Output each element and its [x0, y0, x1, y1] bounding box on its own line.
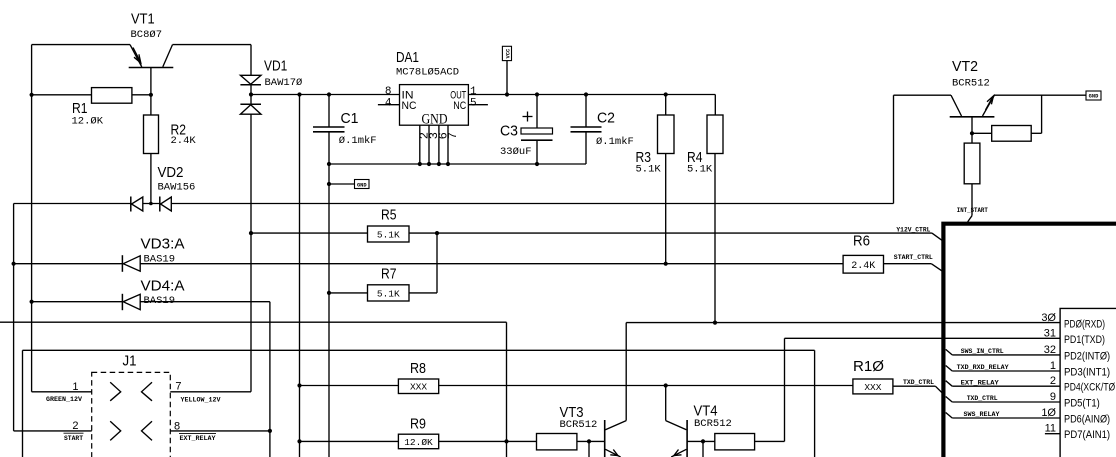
- wire VD3 net left segment: [14, 263, 123, 265]
- resistor R7: [368, 285, 410, 301]
- svg-text:5: 5: [470, 98, 477, 110]
- wire VT1 base down: [150, 68, 152, 95]
- wire VT2 collector feed: [894, 94, 952, 96]
- node VT4 collector riser: [664, 383, 668, 387]
- wire TXD_RXD_RELAY to pin: [952, 370, 1060, 372]
- transistor VT3: [605, 420, 627, 457]
- node R2 bottom junction: [149, 202, 153, 206]
- wire VD3 net to R6 (START_CTRL net): [140, 263, 843, 265]
- ground symbol GND (left): [329, 180, 369, 189]
- bus entry Y12V_CTRL: [932, 233, 942, 240]
- wire vertical x=506.5 down to R9 wire: [506, 322, 508, 457]
- wire VD1 top lead: [250, 45, 252, 76]
- svg-text:32: 32: [1044, 344, 1056, 356]
- pin 4 NC stub: [378, 104, 400, 106]
- pin 7 lead: [447, 125, 449, 164]
- transistor VT2: [950, 95, 995, 117]
- resistor R10: [853, 379, 893, 394]
- bus entry TXD_CTRL: [946, 397, 953, 403]
- svg-text:5.1K: 5.1K: [687, 163, 713, 175]
- svg-text:Y12V_CTRL: Y12V_CTRL: [896, 227, 930, 234]
- diode VD4:A: [122, 294, 140, 310]
- wire R7 right lead: [409, 292, 437, 294]
- wire vertical x=814.6 down offpage: [814, 350, 816, 457]
- svg-text:R1Ø: R1Ø: [853, 358, 884, 375]
- node GND rail / C1 corner: [327, 162, 331, 166]
- svg-text:VD1: VD1: [264, 58, 287, 75]
- node pin3: [427, 162, 431, 166]
- connector J1 dashed outline: [92, 372, 171, 457]
- node R1 left: [30, 93, 34, 97]
- wire PD0 net (R4 bottom to MCU): [626, 322, 1060, 324]
- svg-text:4: 4: [385, 98, 392, 110]
- bus entry TXD_CTRL: [935, 386, 941, 392]
- node x506.5 on R9 wire: [504, 439, 508, 443]
- diode VD1 lower (cathode top): [240, 104, 261, 114]
- node OUT rail / C2: [584, 92, 588, 96]
- node R4 bottom on PD0 net: [713, 321, 717, 325]
- capacitor C2: [571, 95, 602, 165]
- svg-text:1: 1: [470, 86, 477, 98]
- svg-text:VD3:A: VD3:A: [141, 235, 185, 252]
- svg-text:GND: GND: [1089, 94, 1099, 100]
- svg-text:SWS_IN_CTRL: SWS_IN_CTRL: [961, 348, 1004, 355]
- bus entry SWS_IN_CTRL: [946, 349, 953, 355]
- diode VD1 upper (anode top): [240, 75, 261, 85]
- svg-text:J1: J1: [123, 353, 137, 370]
- bus entry START_CTRL: [931, 264, 942, 271]
- wire wireB from x=22.5: [23, 349, 815, 351]
- resistor VT3 internal: [537, 434, 577, 450]
- resistor R5: [368, 226, 410, 242]
- power symbol VCC: [502, 46, 511, 94]
- wire VT2 internal resistor to emitter: [1031, 132, 1041, 134]
- wire TXD_CTRL to pin: [952, 401, 1060, 403]
- svg-text:C1: C1: [341, 110, 359, 127]
- wire GND vertical x=329 (C1 down through sheet): [328, 164, 330, 457]
- wire 12V vertical x=300 (rail down to R8 R9): [299, 95, 301, 457]
- wire 12V rail (VD1 to DA1 IN): [251, 94, 400, 96]
- svg-text:R9: R9: [410, 415, 426, 432]
- node VT4 base junction: [701, 439, 705, 443]
- svg-text:VT4: VT4: [694, 402, 718, 419]
- svg-text:5.1K: 5.1K: [377, 230, 400, 241]
- wire vertical x=269.9 (VD4 down to J1 pin8): [269, 302, 271, 457]
- node VT2 base junction: [970, 131, 974, 135]
- svg-text:VT2: VT2: [952, 58, 978, 75]
- wire VD2 net long segment to VT2: [171, 203, 893, 205]
- resistor R6: [843, 255, 883, 273]
- node R5/R7 junction: [435, 231, 439, 235]
- wire VT3 base lead: [577, 440, 605, 442]
- node GND tap: [327, 182, 331, 186]
- wire START_CTRL to bus: [884, 263, 932, 265]
- transistor VT1: [129, 45, 174, 68]
- svg-text:R6: R6: [853, 233, 870, 250]
- resistor R4: [707, 95, 723, 323]
- pin 6 lead: [438, 125, 440, 164]
- wire R9 left lead: [300, 440, 399, 442]
- wire VT3 collector riser: [625, 323, 627, 421]
- wire VD1 middle lead: [250, 85, 252, 104]
- wire VT4 base stub down: [702, 441, 704, 457]
- wire vertical x=784.5 (PD1 to VT4 resistor): [784, 338, 786, 441]
- svg-text:YELLOW_12V: YELLOW_12V: [181, 396, 221, 403]
- svg-text:5.1K: 5.1K: [636, 163, 662, 175]
- svg-text:11: 11: [1045, 423, 1056, 435]
- wire riser x=1041.6: [1041, 95, 1043, 133]
- svg-text:BC8Ø7: BC8Ø7: [131, 29, 163, 41]
- wire R7 right riser: [436, 233, 438, 293]
- pin 2 lead: [419, 125, 421, 164]
- label START overlined: [64, 433, 84, 442]
- connector contact J1-2: [110, 421, 121, 440]
- svg-text:2.4K: 2.4K: [171, 135, 197, 147]
- wire VT3 base stub down: [588, 441, 590, 457]
- svg-text:2.4K: 2.4K: [851, 261, 875, 272]
- svg-text:XXX: XXX: [410, 382, 427, 393]
- wire vertical x=22.5 down offpage: [22, 350, 24, 457]
- svg-text:START: START: [64, 435, 83, 442]
- node GND rail / C3: [535, 162, 539, 166]
- node R8 left on 12V vertical: [297, 383, 301, 387]
- capacitor C3: [521, 95, 553, 165]
- wire PD1 net (VT4 to MCU): [785, 337, 1061, 339]
- bus entry EXT_RELAY: [946, 381, 953, 387]
- node OUT rail / VCC: [505, 92, 509, 96]
- wire pin 11 stub: [1045, 433, 1060, 435]
- svg-text:BCR512: BCR512: [952, 78, 990, 90]
- wire VD4 net to EXT_RELAY column: [140, 301, 270, 303]
- resistor R2: [144, 95, 159, 204]
- svg-text:PD3(INT1): PD3(INT1): [1064, 367, 1110, 379]
- node 12V rail / x300 vertical: [297, 92, 301, 96]
- svg-text:TXD_CTRL: TXD_CTRL: [903, 379, 934, 386]
- svg-text:PD5(T1): PD5(T1): [1064, 398, 1100, 410]
- svg-text:NC: NC: [402, 100, 417, 112]
- wire 5V OUT rail (DA1 to R4): [468, 94, 715, 96]
- wire VT2 base down: [971, 117, 973, 134]
- svg-text:7: 7: [446, 132, 460, 139]
- svg-text:C2: C2: [597, 110, 615, 127]
- diode VD2 right half: [160, 197, 172, 212]
- resistor R9: [398, 434, 438, 449]
- node R5 left: [249, 231, 253, 235]
- bus thick corner: [943, 224, 1116, 457]
- node VD1 junction to 12V rail: [249, 92, 253, 96]
- svg-text:1: 1: [72, 381, 78, 393]
- svg-text:GND: GND: [357, 183, 367, 189]
- svg-text:1: 1: [1050, 360, 1056, 372]
- wire R8 to R10: [439, 385, 853, 387]
- svg-text:VD2: VD2: [158, 164, 184, 181]
- connector contact J1-1: [110, 382, 121, 401]
- wire R9 to VT3 resistor: [439, 440, 537, 442]
- svg-text:Ø.1mkF: Ø.1mkF: [339, 135, 377, 147]
- node OUT rail / R3: [664, 92, 668, 96]
- IC MCU outline: [1060, 308, 1116, 457]
- wire SWS_IN_CTRL to pin: [952, 354, 1060, 356]
- svg-text:2: 2: [1050, 375, 1056, 387]
- wire J1 pin8 lead: [170, 430, 270, 432]
- svg-text:12.ØK: 12.ØK: [72, 115, 104, 127]
- svg-text:VT1: VT1: [131, 11, 155, 28]
- svg-text:PD7(AIN1): PD7(AIN1): [1064, 429, 1110, 441]
- svg-text:R8: R8: [410, 360, 426, 377]
- svg-text:PD4(XCK/TØ: PD4(XCK/TØ: [1064, 382, 1116, 394]
- diode VD3:A: [122, 255, 140, 272]
- wire VT4 base lead: [687, 440, 715, 442]
- svg-text:PD2(INTØ): PD2(INTØ): [1064, 350, 1110, 362]
- wire EXT_RELAY to pin: [952, 385, 1060, 387]
- resistor R1: [32, 88, 151, 104]
- svg-text:8: 8: [174, 421, 180, 433]
- svg-text:3Ø: 3Ø: [1041, 312, 1056, 324]
- wire PD0 net from left edge: [0, 321, 507, 323]
- svg-text:31: 31: [1044, 327, 1056, 339]
- wire VT4 resistor to PD1 riser: [755, 440, 785, 442]
- capacitor C1: [313, 95, 345, 165]
- resistor VT4 internal: [715, 434, 755, 450]
- svg-text:GREEN_12V: GREEN_12V: [46, 396, 82, 403]
- wire Y12V_CTRL (R5 right to bus): [409, 232, 932, 234]
- node R9 left on 12V vertical: [297, 439, 301, 443]
- ground symbol GND (right): [1086, 91, 1101, 100]
- resistor R8: [398, 379, 438, 394]
- node R7 left on GND vertical: [327, 291, 331, 295]
- wire SWS_RELAY to pin: [952, 417, 1060, 419]
- svg-text:INT_START: INT_START: [957, 207, 988, 214]
- svg-text:TXD_CTRL: TXD_CTRL: [967, 395, 998, 402]
- wire vertical x=13.6 (VD2 net down to START): [13, 204, 15, 431]
- node VT3 base junction: [587, 439, 591, 443]
- svg-text:12.ØK: 12.ØK: [404, 437, 433, 448]
- pin 3 lead: [428, 125, 430, 164]
- bus entry INT_START: [968, 216, 972, 222]
- transistor VT4: [666, 420, 687, 457]
- svg-text:8: 8: [385, 86, 392, 98]
- svg-text:2: 2: [72, 420, 78, 432]
- svg-text:BCR512: BCR512: [560, 419, 598, 431]
- pin 5 NC stub: [468, 104, 488, 106]
- svg-text:MC78LØ5ACD: MC78LØ5ACD: [396, 66, 459, 78]
- svg-text:BAS19: BAS19: [144, 295, 176, 307]
- wire J1 pin2 lead: [14, 430, 92, 432]
- node pin8 / VD4 column: [268, 429, 272, 433]
- svg-text:SWS_RELAY: SWS_RELAY: [964, 411, 1000, 418]
- wire left vertical x=32 (top rail down to J1 pin1): [31, 45, 33, 392]
- svg-text:R7: R7: [381, 265, 397, 282]
- svg-text:XXX: XXX: [864, 382, 881, 393]
- svg-text:BAW17Ø: BAW17Ø: [265, 77, 303, 89]
- wire R5 left lead from VD1 column: [251, 232, 368, 234]
- svg-text:VD4:A: VD4:A: [141, 278, 185, 295]
- svg-text:PD6(AINØ): PD6(AINØ): [1064, 414, 1110, 426]
- svg-text:33ØuF: 33ØuF: [500, 146, 532, 158]
- svg-text:Ø.1mkF: Ø.1mkF: [596, 136, 634, 148]
- wire VD2 net left segment: [14, 203, 131, 205]
- wire VT2 base to internal resistor: [972, 132, 992, 134]
- node VD3 start on x13.6: [12, 262, 16, 266]
- wire vertical x=893.5 up to VT2: [893, 95, 895, 203]
- svg-text:VCC: VCC: [506, 48, 512, 58]
- svg-text:BAW156: BAW156: [158, 182, 196, 194]
- wire GND rail under DA1: [329, 163, 586, 165]
- node VD4 start on x32: [30, 300, 34, 304]
- svg-text:DA1: DA1: [396, 49, 419, 66]
- wire J1 pin7 lead: [170, 391, 251, 393]
- svg-text:R5: R5: [381, 207, 397, 224]
- wire VD1 bottom vertical down to J1 pin7: [250, 114, 252, 392]
- wire J1 pin1 lead: [32, 391, 92, 393]
- wire top rail left segment (VT1 emitter feed): [32, 44, 130, 46]
- op-amp U DA1 MC78L05ACD body: [400, 85, 469, 126]
- node pin6: [437, 162, 441, 166]
- svg-text:TXD_RXD_RELAY: TXD_RXD_RELAY: [957, 364, 1009, 371]
- node R3 bottom on VD3 net: [664, 262, 668, 266]
- svg-text:NC: NC: [453, 100, 466, 112]
- svg-text:5.1K: 5.1K: [377, 288, 400, 299]
- bus entry TXD_RXD_RELAY: [946, 366, 953, 372]
- wire VD4 net left segment: [32, 301, 123, 303]
- wire R7 left lead to GND vertical: [329, 292, 368, 294]
- node OUT rail / C3: [535, 92, 539, 96]
- wire R10 right lead TXD_CTRL: [893, 385, 936, 387]
- node 12V rail / C1: [327, 92, 331, 96]
- wire R8 left lead: [300, 385, 399, 387]
- svg-text:START_CTRL: START_CTRL: [894, 254, 933, 261]
- connector contact J1-8: [142, 421, 153, 440]
- wire VT2 emitter to GND box: [994, 94, 1086, 96]
- diode VD2 left half: [131, 197, 143, 212]
- node pin2: [418, 162, 422, 166]
- wire VT4 collector riser: [665, 386, 667, 421]
- resistor R3: [658, 95, 675, 264]
- bus entry SWS_RELAY: [946, 413, 953, 419]
- svg-text:1Ø: 1Ø: [1041, 407, 1056, 419]
- connector contact J1-7: [142, 382, 153, 401]
- svg-text:C3: C3: [500, 122, 518, 139]
- svg-text:EXT_RELAY: EXT_RELAY: [180, 435, 216, 442]
- wire top rail right segment (VT1 collector to VD1): [173, 44, 252, 46]
- svg-text:PD1(TXD): PD1(TXD): [1064, 334, 1105, 346]
- svg-text:BCR512: BCR512: [694, 418, 732, 430]
- node VT1 base / R1 right: [149, 93, 153, 97]
- svg-text:EXT_RELAY: EXT_RELAY: [961, 379, 999, 386]
- svg-text:9: 9: [1050, 391, 1056, 403]
- label EXT_RELAY overlined: [179, 434, 216, 443]
- svg-text:PDØ(RXD): PDØ(RXD): [1064, 319, 1105, 331]
- resistor VT2 series vertical: [964, 133, 980, 215]
- svg-text:GND: GND: [422, 111, 448, 127]
- wire between VD2 halves: [143, 203, 160, 205]
- resistor VT2 internal horizontal: [992, 126, 1031, 142]
- svg-text:7: 7: [175, 381, 181, 393]
- node pin7: [446, 162, 450, 166]
